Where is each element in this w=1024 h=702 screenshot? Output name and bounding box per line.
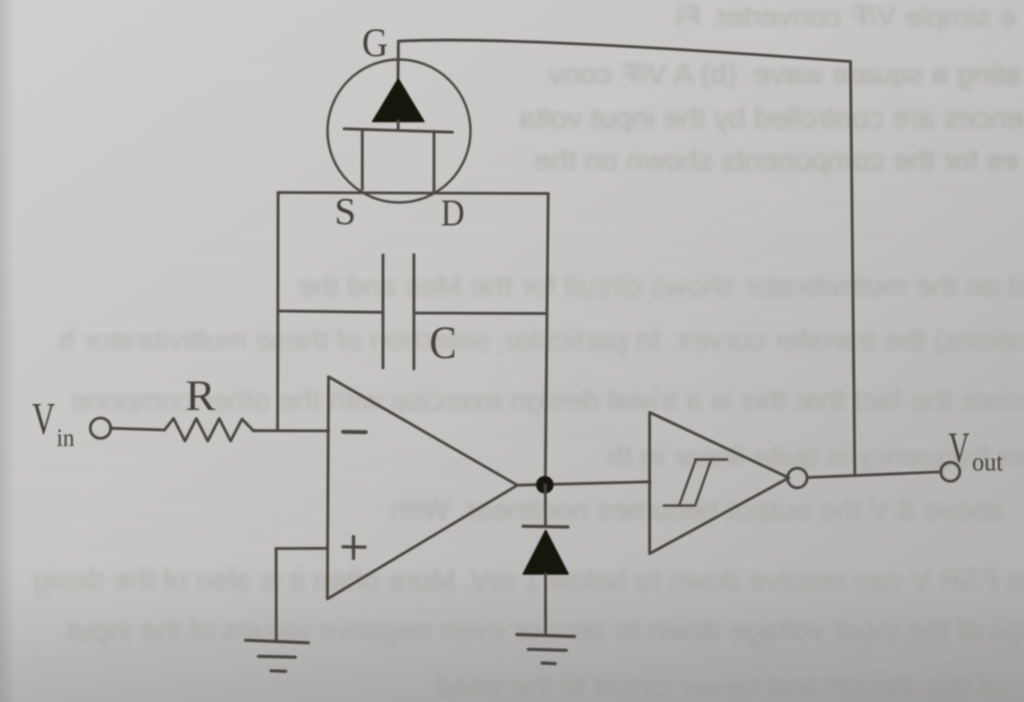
- wire: Vin terminal to resistor: [111, 428, 165, 430]
- wire: node down to diode: [544, 485, 547, 526]
- svg-text:ences are controlled by the in: ences are controlled by the input volta: [518, 102, 1024, 135]
- svg-text:S: S: [335, 191, 357, 233]
- op-amp U1 triangle: [327, 377, 517, 599]
- wire: op-amp output to Schmitt input: [517, 482, 650, 485]
- wire: top rail S to D: [278, 193, 548, 194]
- svg-text:ations) the transfer curves. I: ations) the transfer curves. In particul…: [59, 324, 1024, 357]
- Schmitt trigger U2 output bubble: [788, 468, 808, 488]
- Schmitt trigger U2 hysteresis symbol: [664, 460, 728, 506]
- transistor Q1 gate arrow (filled): [373, 79, 424, 122]
- svg-text:in: in: [57, 425, 75, 452]
- wire: non-inverting input down to ground: [275, 549, 278, 641]
- svg-text:V: V: [32, 394, 55, 444]
- transistor Q1 arrow stub: [397, 121, 400, 130]
- wire: capacitor right lead: [414, 312, 547, 315]
- transistor Q1 gate bar: [344, 129, 452, 132]
- wire: resistor to op-amp inverting input: [253, 429, 328, 432]
- op-amp U1 plus sign: [343, 537, 365, 559]
- diode D1 cathode bar: [523, 525, 568, 529]
- Vin terminal circle: [90, 418, 110, 438]
- svg-text:C: C: [430, 317, 457, 369]
- svg-text:d on the multivibrator shows c: d on the multivibrator shows circuit for…: [297, 270, 1024, 303]
- wire: capacitor left lead: [278, 311, 383, 312]
- svg-text:of this design and clever circ: of this design and clever circuit to the…: [437, 670, 1004, 702]
- wire: left vertical (junction up to S rail): [276, 193, 279, 431]
- capacitor C left plate: [382, 255, 385, 368]
- wire: feedback top run from gate: [398, 40, 850, 61]
- wire: non-inverting input: [276, 547, 326, 550]
- svg-text:e simple V/F converter. Fi: e simple V/F converter. Fi: [676, 0, 1016, 33]
- transistor Q1 source leg: [361, 130, 364, 190]
- wire: diode to ground: [544, 574, 547, 635]
- diode D1 triangle (filled): [523, 531, 568, 575]
- svg-text:G: G: [362, 20, 388, 65]
- svg-text:out: out: [972, 447, 1004, 476]
- svg-text:es for the components shown on: es for the components shown on the: [534, 144, 1018, 177]
- svg-text:D: D: [441, 193, 465, 235]
- wire: feedback right vertical: [851, 62, 855, 476]
- resistor R: [165, 419, 254, 442]
- svg-text:ating a square wave. (b) A V/F: ating a square wave. (b) A V/F conv: [548, 58, 1022, 91]
- transistor Q1 drain leg: [433, 132, 436, 193]
- Vout terminal circle: [941, 462, 960, 481]
- svg-text:R: R: [186, 373, 216, 420]
- transistor Q1 body circle: [328, 60, 471, 203]
- svg-text:V: V: [949, 425, 970, 472]
- ground (diode): [517, 635, 575, 664]
- op-amp U1 minus sign: [343, 430, 366, 434]
- wire: right vertical (D rail down to output node): [545, 194, 548, 485]
- wire: Schmitt output to Vout terminal: [807, 472, 941, 478]
- ground (op-amp + input): [246, 640, 309, 671]
- wire: gate lead G: [397, 41, 400, 80]
- node: output junction dot: [536, 476, 554, 494]
- Schmitt trigger U2 triangle: [650, 412, 789, 553]
- circuit drawing: [90, 40, 960, 671]
- capacitor C right plate: [412, 255, 415, 370]
